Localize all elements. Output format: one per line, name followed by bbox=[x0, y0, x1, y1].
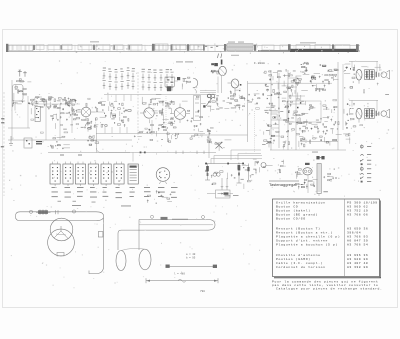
svg-text:l = 480: l = 480 bbox=[174, 272, 185, 276]
wire - IF bus bbox=[96, 132, 205, 134]
heater winding leads bbox=[221, 178, 228, 190]
chassis component block 1 bbox=[9, 45, 33, 51]
mains switch group right bbox=[237, 164, 242, 184]
dimension arrow 2 bbox=[146, 278, 218, 283]
osc trimmer set bbox=[182, 77, 191, 89]
chassis component block 5 bbox=[78, 45, 92, 50]
alignment trimmer marks bbox=[147, 190, 172, 203]
IF transformer S-curve bbox=[193, 78, 198, 93]
wire - mixer lead bbox=[234, 88, 236, 97]
svg-text:Catalogue pour pieces de recha: Catalogue pour pieces de rechange standa… bbox=[276, 287, 383, 291]
cable tie a bbox=[29, 210, 32, 213]
dial band tick marks bbox=[12, 45, 215, 51]
ground symbol left bbox=[9, 136, 13, 145]
dial pulley 11 bbox=[254, 45, 256, 51]
aerial A2 bbox=[23, 71, 27, 77]
wire - mains bus bbox=[205, 163, 244, 165]
type label F.208A bbox=[254, 62, 265, 65]
svg-text:790: 790 bbox=[200, 290, 205, 293]
tie ticks bbox=[56, 210, 59, 214]
wire - bus vertical 3 bbox=[287, 70, 289, 150]
wire - bus vertical 5 bbox=[337, 62, 339, 150]
symbol legend bbox=[360, 144, 371, 182]
dark bars mark bbox=[36, 141, 42, 144]
pointer detail marks bbox=[218, 54, 222, 59]
edge connector marks bbox=[1, 118, 5, 147]
detector diode network bbox=[187, 96, 206, 139]
wire - detector bus bbox=[200, 134, 248, 136]
loudspeaker LS1 bbox=[381, 70, 390, 79]
band annotation 1 bbox=[90, 40, 99, 43]
wire - AF ladder rungs bbox=[271, 78, 305, 136]
relay box bbox=[24, 138, 32, 148]
right mid specks bbox=[343, 133, 350, 144]
wire - mixer link bbox=[95, 111, 104, 113]
value labels zone 2 bbox=[144, 94, 195, 137]
below bus specks bbox=[60, 155, 82, 156]
band filter components bbox=[35, 97, 61, 106]
AF bus ticks bbox=[176, 151, 204, 154]
band switch box S2 bbox=[165, 77, 178, 91]
triode section V3b bbox=[228, 79, 242, 88]
dial pulley 8 bbox=[187, 44, 189, 51]
aerial label specks bbox=[16, 79, 31, 82]
dial cord run lower bbox=[8, 50, 360, 52]
chassis component block 2 bbox=[36, 45, 44, 50]
wire - IFT secondary lead bbox=[208, 130, 210, 158]
loop caption marks bbox=[58, 201, 96, 203]
wire - elbow feed 1 bbox=[231, 150, 261, 160]
svg-text:Plaquette a bouchon (5 p): Plaquette a bouchon (5 p) bbox=[276, 243, 338, 247]
dim text 790 bbox=[200, 290, 205, 293]
power label text bbox=[269, 181, 299, 188]
resistor R1 network bbox=[12, 100, 25, 110]
tube base view EM80 bbox=[156, 168, 170, 184]
wire - HT rail bbox=[248, 82, 333, 84]
oscillator coil L2 bbox=[35, 107, 40, 122]
tube V3 EABC80 bbox=[170, 104, 190, 124]
coil ring A bbox=[116, 251, 126, 271]
svg-text:F.208A: F.208A bbox=[254, 62, 265, 65]
wire - mains elbow 3 bbox=[211, 159, 262, 164]
wire - eye tube lead bbox=[218, 76, 222, 93]
coupling parts right bbox=[344, 64, 355, 88]
driver stage lower bbox=[299, 105, 342, 147]
dial pulley 9 bbox=[203, 45, 205, 51]
wire - IF stage drops bbox=[105, 95, 131, 134]
loop antenna down-lead bbox=[89, 218, 104, 274]
tube socket ECH81 bbox=[50, 162, 60, 186]
coil ring B bbox=[139, 249, 151, 270]
dial pulley 7 bbox=[171, 44, 173, 50]
svg-text:A3 768 06: A3 768 06 bbox=[347, 213, 368, 217]
cord tie 2 bbox=[202, 216, 205, 219]
lead-in connector bbox=[98, 232, 103, 237]
power transformer T5 bbox=[317, 164, 321, 194]
value labels zone 4 bbox=[266, 63, 336, 149]
dial pulley 5 bbox=[129, 45, 131, 50]
loop winding turn 2 bbox=[48, 229, 75, 256]
input tuned circuit bbox=[28, 97, 52, 115]
cable junction tape bbox=[36, 210, 51, 215]
dim note a bbox=[186, 253, 196, 256]
svg-text:b = 95: b = 95 bbox=[186, 256, 196, 260]
tube V1 ECH81 bbox=[77, 103, 95, 121]
band annotation 2 bbox=[228, 41, 244, 44]
tone network bbox=[213, 95, 243, 109]
mains part right column bbox=[247, 164, 249, 181]
wire - mains elbow 4 bbox=[214, 156, 262, 164]
wire label on loop bbox=[172, 218, 188, 221]
output transformer T3 bbox=[365, 70, 380, 80]
wire - aerial down lead bbox=[11, 80, 13, 140]
mains switch group left bbox=[205, 164, 210, 181]
tube V2 EF89 bbox=[140, 104, 158, 118]
tuning gang assembly (hatched) bbox=[227, 44, 253, 50]
footnote line 1 bbox=[272, 279, 379, 283]
parts table rows bbox=[276, 201, 378, 269]
eye tube grid parts bbox=[211, 70, 218, 74]
IFT secondary parts bbox=[207, 128, 214, 143]
wire - input stage drop 1 bbox=[27, 96, 29, 128]
wave-band switch bank SA bbox=[103, 67, 135, 90]
tuning capacitor section bbox=[58, 97, 76, 103]
mixer grid network bbox=[51, 103, 81, 121]
value labels zone 1 bbox=[31, 98, 90, 133]
triode cathode parts bbox=[230, 90, 241, 95]
dial pulley 1 bbox=[33, 45, 35, 50]
chassis component block 11 bbox=[190, 45, 204, 50]
AF amplifier network upper bbox=[262, 71, 308, 102]
cord tie 1 bbox=[151, 215, 154, 218]
dimension arrow 1 bbox=[166, 265, 218, 269]
svg-text:Tastenaggregat: Tastenaggregat bbox=[269, 182, 297, 187]
selenium rectifier row bbox=[253, 159, 284, 173]
chassis component block 7 bbox=[113, 45, 123, 50]
tube socket EL84 bbox=[101, 162, 111, 186]
psu bottom cluster bbox=[298, 179, 318, 189]
wire - bus vertical 4 bbox=[295, 76, 297, 150]
loop base clamp bbox=[57, 253, 64, 256]
wire - input stage drop 3 bbox=[59, 104, 61, 140]
negative feedback box bbox=[287, 101, 321, 122]
dial cord run upper bbox=[8, 44, 360, 46]
marks near rectifier bbox=[215, 140, 232, 151]
V1 cathode network bbox=[81, 118, 99, 129]
wire - input stage link bbox=[30, 103, 80, 105]
loop winding turn 1 bbox=[50, 218, 73, 241]
svg-text:Bouton CO/GO: Bouton CO/GO bbox=[276, 217, 306, 221]
flat coil inner line bbox=[139, 224, 213, 226]
AF amplifier network mid bbox=[264, 101, 304, 127]
tube socket EM80 bbox=[114, 162, 124, 186]
osc trimmer dark pair bbox=[177, 77, 180, 80]
loudspeaker LS2 bbox=[381, 109, 390, 118]
wire - bus vertical 1 bbox=[270, 70, 272, 150]
flat coil drop lead bbox=[138, 220, 140, 251]
components on IF bus bbox=[134, 131, 179, 142]
mains value specks bbox=[250, 169, 257, 178]
aerial changeover switch S1 bbox=[13, 85, 27, 102]
chassis component block 4 bbox=[62, 44, 72, 50]
wire - output stage rail bbox=[270, 149, 346, 151]
value labels zone 3 bbox=[217, 94, 260, 110]
parts table frame bbox=[273, 199, 382, 278]
dial pulley 6 bbox=[152, 44, 155, 51]
dial pulley 2 bbox=[61, 45, 63, 50]
lower left parts bbox=[50, 136, 70, 149]
diode pair marks bbox=[208, 94, 215, 97]
band under-label bbox=[231, 54, 239, 57]
band annotation 3 bbox=[300, 41, 316, 44]
wire - right link bbox=[300, 141, 338, 143]
chassis component block 15 bbox=[315, 45, 330, 50]
svg-text:Cordonnet de torsion: Cordonnet de torsion bbox=[276, 265, 326, 269]
footnote line 2 bbox=[272, 283, 379, 287]
output tube V5 EL84 bbox=[349, 100, 378, 122]
wire - dotted lead A bbox=[165, 96, 167, 131]
small part box bbox=[216, 190, 231, 198]
dim note b bbox=[186, 256, 196, 260]
chassis component block 16 bbox=[335, 45, 350, 50]
psu left column bbox=[295, 169, 302, 185]
chassis component block 12 bbox=[262, 45, 274, 50]
dim text mid bbox=[174, 272, 185, 279]
footnote line 3 bbox=[276, 287, 383, 291]
mains section bbox=[205, 163, 250, 189]
mains filter parts bbox=[323, 169, 337, 182]
loop hub struts bbox=[54, 226, 68, 239]
V2 anode load bbox=[142, 97, 160, 106]
chassis component block 13 bbox=[280, 45, 290, 50]
socket caption labels bbox=[52, 187, 178, 206]
wire - input stage drop 2 bbox=[45, 100, 47, 140]
wire - fold line left bbox=[3, 92, 5, 196]
V2 screen network bbox=[158, 100, 174, 125]
chassis component block 10 bbox=[172, 44, 186, 50]
chassis component block 6 bbox=[96, 44, 110, 49]
AF coupling parts bbox=[241, 94, 260, 107]
dial pulley 10 bbox=[224, 44, 226, 51]
IF amplifier network bbox=[95, 102, 131, 128]
output tube V4 EL84 bbox=[349, 61, 378, 83]
coupling parts right 2 bbox=[344, 103, 356, 129]
AF network lower bbox=[262, 129, 307, 148]
flat coil loop upper bbox=[118, 220, 215, 251]
chassis component block 8 bbox=[128, 44, 142, 50]
connector symbol bbox=[312, 152, 325, 160]
transformer leads bbox=[308, 175, 319, 196]
tube socket EZ80 bbox=[128, 164, 138, 184]
svg-text:A3 338 89: A3 338 89 bbox=[347, 265, 368, 269]
driver stage upper bbox=[301, 62, 339, 92]
title text bbox=[176, 61, 193, 62]
value labels zone 5 bbox=[357, 64, 390, 126]
dial pulley 4 bbox=[114, 45, 116, 50]
volume control P1 bbox=[200, 91, 216, 112]
tiny label 211 bbox=[211, 63, 214, 65]
loop antenna frame L10 bbox=[15, 212, 103, 221]
ring link wire bbox=[121, 248, 145, 250]
motor symbol M bbox=[303, 163, 312, 175]
dial pulley 12 bbox=[288, 44, 291, 51]
dial scale bar bbox=[258, 50, 358, 52]
wire - AF bus 1 bbox=[48, 128, 216, 162]
wire - input stage drop 4 bbox=[71, 100, 73, 133]
cord marks mid bbox=[205, 46, 218, 48]
wire - dotted lead B bbox=[254, 111, 256, 152]
magic eye EM80 bbox=[214, 60, 226, 76]
chassis component block 3 bbox=[48, 45, 60, 50]
dial pulley 14 bbox=[356, 44, 359, 51]
cable tie b bbox=[72, 210, 75, 213]
IF decoupling bbox=[146, 119, 176, 137]
dial pulley 13 bbox=[332, 44, 334, 50]
tube socket EABC80 bbox=[75, 162, 85, 186]
wire - IF link bbox=[151, 120, 153, 133]
wire - left short bus bbox=[8, 127, 30, 129]
wire - left ground bus bbox=[8, 139, 132, 141]
scan noise bbox=[9, 44, 394, 289]
fuse loops bbox=[213, 173, 220, 177]
chassis component block 14 bbox=[296, 45, 310, 50]
output transformer T4 bbox=[365, 109, 380, 119]
twist marker bbox=[161, 217, 168, 220]
IFT can T2 bbox=[194, 96, 201, 121]
wire - AVC line bbox=[104, 94, 216, 96]
psu label bbox=[323, 190, 328, 193]
rectifier arrows bbox=[216, 142, 223, 149]
svg-text:a = 40: a = 40 bbox=[186, 253, 196, 256]
wire - anode feed bbox=[247, 81, 249, 142]
dial scale dark segment bbox=[290, 49, 358, 52]
dial pulley 3 bbox=[93, 45, 95, 50]
lower left parts 2 bbox=[87, 136, 98, 145]
tube socket EL84 bbox=[88, 162, 98, 186]
tube socket EF89 bbox=[63, 162, 73, 186]
wire - right inner vertical bbox=[342, 64, 344, 130]
wire - bus vertical 2 bbox=[278, 73, 280, 148]
wire - elbow feed 2 bbox=[238, 154, 261, 161]
wave-band switch bank SB bbox=[142, 69, 174, 91]
wire - dashed screen lead bbox=[137, 72, 139, 135]
chassis left bracket bbox=[6, 44, 8, 52]
chassis component block 9 bbox=[155, 44, 168, 50]
wire - mains bottom bbox=[207, 194, 239, 196]
svg-text:A3 766 54: A3 766 54 bbox=[347, 243, 368, 247]
aerial A1 bbox=[18, 70, 22, 77]
